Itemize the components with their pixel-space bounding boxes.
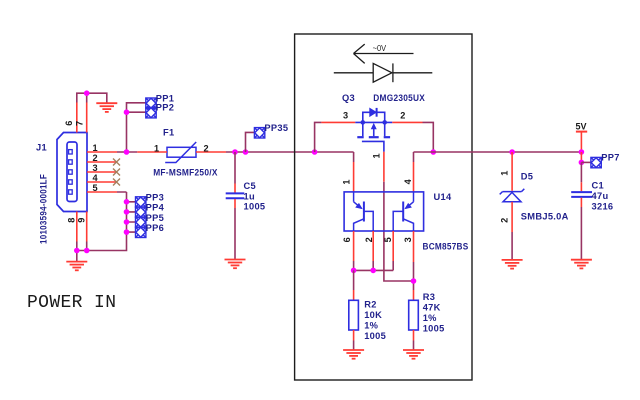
junction pins 6-7 [84, 90, 90, 96]
current direction arrow [354, 44, 414, 63]
no-connect X pin 4 [113, 179, 120, 186]
ground (C5) [225, 260, 246, 269]
svg-text:J1: J1 [36, 143, 47, 153]
svg-text:47K: 47K [423, 303, 441, 313]
junction PP7 [579, 160, 585, 166]
junction pin2 [370, 268, 376, 274]
resistor R2 [349, 300, 359, 330]
pin 2 stub J1 [87, 161, 117, 163]
wire 5V down to PP7/C1 [580, 152, 582, 162]
junction pin 8 [74, 248, 80, 254]
pin 5 stub J1 [87, 191, 117, 193]
svg-text:PP6: PP6 [146, 223, 164, 233]
test point PP35 [254, 128, 264, 138]
wire U14 pins 6,2,5 common [354, 261, 394, 270]
junction C5 [232, 149, 238, 155]
svg-text:F1: F1 [163, 128, 174, 138]
capacitor C1 [571, 192, 592, 197]
svg-text:BCM857BS: BCM857BS [423, 242, 469, 252]
pin 4 stub J1 [87, 181, 117, 183]
pin 1 stub U14 [353, 162, 355, 192]
junction PP5 [124, 219, 130, 225]
svg-text:SMBJ5.0A: SMBJ5.0A [521, 211, 569, 221]
wire rail to U14 pin 4 [413, 152, 415, 162]
svg-text:PP7: PP7 [601, 153, 619, 163]
svg-text:1%: 1% [364, 321, 378, 331]
pin 8 stub J1 (bottom) [76, 212, 78, 242]
IC U14 body [344, 192, 424, 231]
test point PP4 [136, 207, 146, 217]
svg-text:1: 1 [371, 153, 381, 158]
wire rail to U14 pin 1 [353, 152, 355, 162]
svg-text:1: 1 [93, 143, 98, 153]
pin 3 stub Q3 [321, 121, 355, 123]
junction PP2 [124, 109, 130, 115]
test point PP2 [146, 108, 156, 118]
junction pin6/R2 [351, 268, 357, 274]
pin 4 stub U14 [413, 162, 415, 192]
pin 7 stub J1 (top) [86, 103, 88, 133]
Q3 substrate arrow [371, 124, 376, 129]
power symbol 5V [576, 131, 587, 133]
no-connect X pin 2 [113, 159, 120, 166]
pin 2 stub U14 [372, 231, 374, 261]
pin 2 stub D5 [511, 202, 513, 232]
ground (C1) [571, 260, 592, 269]
resistor R3 [409, 300, 419, 330]
pin 2 stub F1 [196, 151, 226, 153]
svg-text:3: 3 [343, 110, 348, 120]
svg-text:5: 5 [383, 237, 393, 242]
pin 6 stub U14 [353, 231, 355, 261]
pin 1 stub F1 [137, 151, 167, 153]
svg-text:PP2: PP2 [156, 103, 174, 113]
junction PP35 [243, 149, 249, 155]
svg-text:1u: 1u [244, 191, 255, 201]
junction Q3 drain rail [431, 149, 437, 155]
pin stub R3 top [413, 290, 415, 300]
svg-text:4: 4 [93, 173, 99, 183]
svg-text:2: 2 [204, 144, 209, 154]
wire R2 to ground [353, 341, 355, 351]
U14 right emitter arrow [405, 204, 411, 209]
block diode symbol [334, 63, 433, 82]
pin stub C1 top [580, 182, 582, 191]
wire Q3 gate to R3 node [384, 182, 414, 281]
wire pins 6,7 to top ground [77, 93, 107, 102]
svg-text:3216: 3216 [592, 202, 614, 212]
no-connect X pin 3 [113, 169, 120, 176]
pin stub R3 bottom [413, 330, 415, 341]
svg-text:9: 9 [76, 218, 86, 223]
ground (below J1) [66, 262, 87, 271]
U14 left PNP transistor [354, 192, 374, 231]
U14 left emitter arrow [356, 204, 362, 209]
pin stub R2 bottom [353, 330, 355, 341]
svg-text:8: 8 [67, 218, 77, 223]
pin 3 stub U14 [413, 231, 415, 262]
ground (top left) [96, 103, 117, 112]
Q3 body diode [370, 108, 376, 116]
svg-text:2: 2 [400, 110, 405, 120]
wire U14 pin3 to gate node [413, 262, 415, 290]
test points PP3-PP6 taps [127, 202, 136, 232]
Q3 terminal dots [361, 120, 366, 125]
junction D5 [509, 149, 515, 155]
junction PP3 [124, 199, 130, 205]
svg-text:C1: C1 [592, 180, 604, 190]
junction PP6 [124, 229, 130, 235]
wire C1 to ground [580, 207, 582, 260]
wire pin1 to F1 [117, 151, 137, 153]
svg-text:1: 1 [154, 144, 159, 154]
wire rail up to Q3 pin 3 [315, 122, 322, 152]
wire PP35 tap [246, 132, 255, 152]
svg-text:~0V: ~0V [373, 43, 387, 53]
svg-text:DMG2305UX: DMG2305UX [373, 93, 425, 103]
svg-text:1005: 1005 [244, 202, 266, 212]
svg-text:MF-MSMF250/X: MF-MSMF250/X [153, 168, 218, 178]
ground (R2) [343, 350, 364, 359]
junction PP4 [124, 209, 130, 215]
test point PP5 [136, 217, 146, 227]
wire PP1/PP2 down to pin1 net [127, 103, 146, 152]
svg-text:2: 2 [93, 153, 98, 163]
wire C5 branch [234, 152, 236, 184]
pin stub C5 top [234, 184, 236, 193]
pin 1 stub Q3 gate [383, 152, 385, 182]
svg-text:U14: U14 [434, 192, 452, 202]
wire C5 to ground [234, 208, 236, 260]
J1 contact pads [69, 150, 73, 195]
svg-text:3: 3 [403, 237, 413, 242]
transistor Q3 P-MOSFET [355, 112, 392, 151]
svg-text:PP35: PP35 [264, 123, 288, 133]
test point PP7 [591, 157, 601, 167]
pin stub R2 top [353, 290, 355, 300]
svg-text:PP3: PP3 [146, 193, 164, 203]
junction Q3 source branch [312, 149, 318, 155]
pin 2 stub Q3 [392, 121, 422, 123]
svg-text:POWER IN: POWER IN [27, 293, 116, 313]
wire Q3 pin 2 down to rail [423, 122, 434, 152]
pin 3 stub J1 [87, 171, 117, 173]
svg-text:PP5: PP5 [146, 213, 164, 223]
test point PP3 [136, 197, 146, 207]
block border box [295, 34, 472, 380]
svg-text:Q3: Q3 [342, 93, 355, 103]
svg-text:5: 5 [93, 183, 98, 193]
pin 1 stub D5 [511, 152, 513, 191]
svg-text:6: 6 [342, 237, 352, 242]
wire pins 8,9 to ground / shield net [77, 192, 127, 262]
svg-text:4: 4 [403, 178, 413, 184]
connector J1 body [57, 133, 87, 212]
svg-text:R2: R2 [364, 300, 376, 310]
svg-text:2: 2 [500, 218, 510, 223]
junction pin 9 [84, 248, 90, 254]
junction gate/R3 [411, 278, 417, 284]
diode D5 TVS [500, 189, 525, 202]
ground (R3) [403, 350, 424, 359]
wire F1 to box (power rail) [226, 151, 354, 153]
svg-text:1%: 1% [423, 313, 437, 323]
svg-text:10103594-0001LF: 10103594-0001LF [39, 174, 49, 244]
pin 6 stub J1 (top) [76, 103, 78, 133]
svg-text:PP4: PP4 [146, 203, 165, 213]
U14 right PNP transistor [393, 192, 413, 231]
svg-text:1: 1 [342, 179, 352, 184]
wire PP7 tap [581, 161, 591, 163]
svg-text:R3: R3 [423, 292, 435, 302]
junction pin1 rail [124, 149, 130, 155]
svg-text:D5: D5 [521, 171, 533, 181]
fuse F1 [165, 142, 196, 163]
svg-text:5V: 5V [576, 122, 587, 132]
junction 5V rail [579, 149, 585, 155]
svg-text:1005: 1005 [423, 324, 445, 334]
pin 9 stub J1 (bottom) [86, 212, 88, 242]
wire rail right segment [414, 151, 582, 153]
pin 5 stub U14 [392, 231, 394, 261]
pin stub C5 bottom [234, 199, 236, 208]
wire D5 to ground [511, 232, 513, 260]
wire R3 to ground [413, 341, 415, 351]
svg-text:10K: 10K [364, 310, 382, 320]
pin 1 stub J1 [87, 151, 117, 153]
svg-text:1005: 1005 [364, 331, 386, 341]
svg-text:7: 7 [75, 121, 85, 126]
wire C1 branch [580, 162, 582, 182]
svg-text:C5: C5 [244, 181, 256, 191]
ground (D5) [502, 260, 523, 269]
wire R2 branch [353, 270, 355, 290]
test point PP6 [136, 227, 146, 237]
svg-text:1: 1 [500, 171, 510, 176]
capacitor C5 [226, 193, 245, 198]
test point PP1 [146, 98, 156, 108]
svg-text:47u: 47u [592, 191, 609, 201]
pin stub C1 bottom [580, 198, 582, 207]
svg-text:2: 2 [364, 237, 374, 242]
svg-text:3: 3 [93, 163, 98, 173]
svg-text:6: 6 [64, 121, 74, 126]
